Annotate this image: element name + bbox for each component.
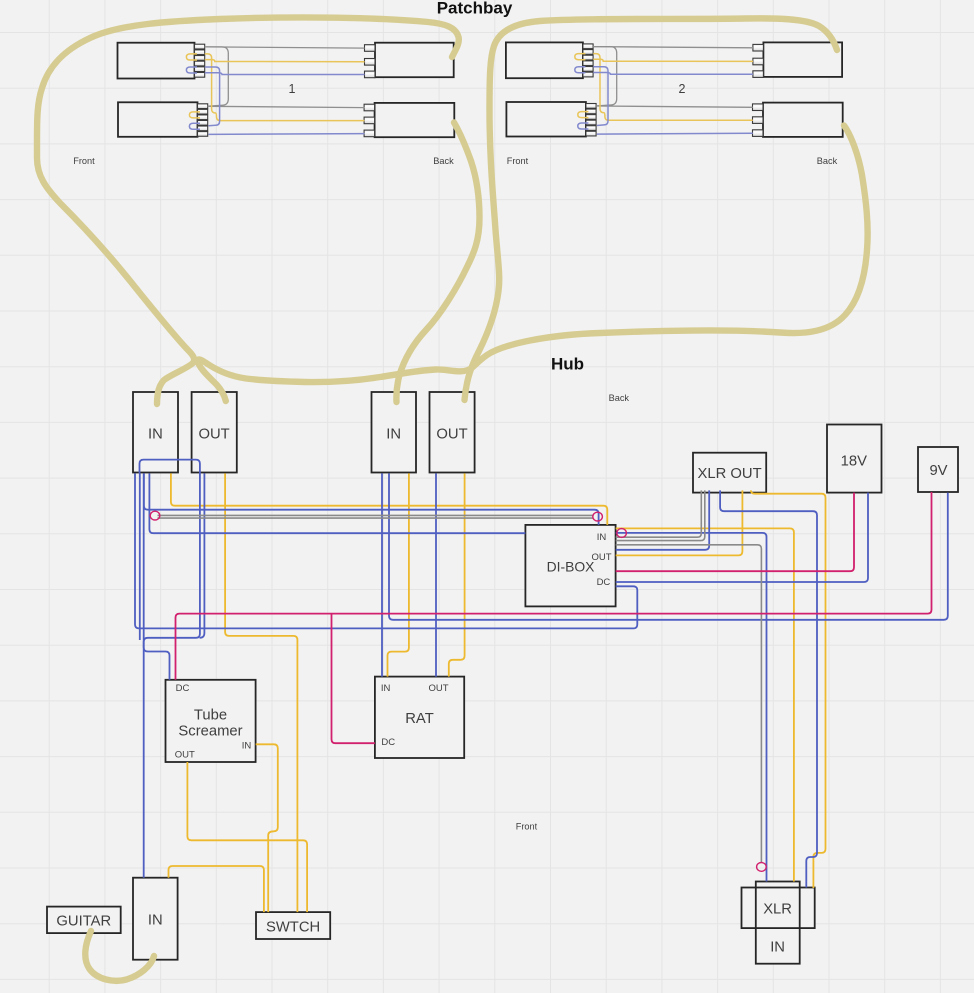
svg-text:DC: DC xyxy=(597,577,611,588)
DI-BOX xyxy=(525,525,615,607)
svg-text:OUT: OUT xyxy=(428,683,448,694)
wire yellow Tube Screamer OUT to SWTCH xyxy=(187,762,307,912)
wire blue hub IN middle to 9V xyxy=(389,473,948,619)
wire yellow hub OUT to SWTCH xyxy=(225,473,297,912)
wire gray XLR OUT jack to DI-BOX IN a xyxy=(616,490,702,537)
wire blue 2 front-bottom to back-bottom xyxy=(597,132,753,135)
svg-text:Tube: Tube xyxy=(194,708,227,724)
patchbay 1 front-top jack strip xyxy=(118,43,195,79)
svg-text:IN: IN xyxy=(148,913,163,929)
svg-text:OUT: OUT xyxy=(198,427,229,443)
svg-text:Back: Back xyxy=(817,156,838,166)
wire gray twisted pair lower xyxy=(158,517,594,519)
patch cable 2 back-bottom to hub OUT xyxy=(198,126,868,402)
wire yellow 2 loop at front-top xyxy=(575,54,586,60)
patchbay 2 front-bottom pins xyxy=(586,104,596,109)
patchbay group 1 xyxy=(118,43,455,138)
wire blue hub IN to DI-BOX left xyxy=(149,473,525,533)
patchbay 2 back-top pins xyxy=(753,44,764,51)
wire yellow Tube Screamer IN to SWTCH xyxy=(256,744,278,912)
wire gray DI-BOX to XLR junction xyxy=(616,545,762,862)
svg-text:Hub: Hub xyxy=(551,355,584,374)
patchbay 1 back-top pins xyxy=(365,45,376,52)
wire gray 2 front-top to back-top xyxy=(593,47,753,48)
wire blue 1 front-top to back-top xyxy=(205,73,365,75)
svg-text:OUT: OUT xyxy=(591,552,611,563)
svg-text:IN: IN xyxy=(597,532,607,543)
svg-text:Screamer: Screamer xyxy=(178,723,242,739)
hub XLR OUT jack xyxy=(693,453,766,493)
wire yellow 1 front-top to back-top xyxy=(205,60,365,62)
wire blue 1 front-bottom to back-bottom xyxy=(209,133,365,136)
patch cable 2 back-top to hub OUT middle xyxy=(465,18,838,400)
wire blue 2 loop at front-bottom xyxy=(578,123,589,129)
junction circle DI-BOX IN xyxy=(617,529,627,538)
svg-text:DC: DC xyxy=(176,683,190,694)
svg-text:DI-BOX: DI-BOX xyxy=(547,559,595,575)
wire yellow hub OUT middle to RAT OUT xyxy=(449,473,465,676)
svg-text:Back: Back xyxy=(609,393,630,403)
patchbay 1 front-bottom pins xyxy=(198,104,208,109)
wire yellow hub IN middle to RAT IN xyxy=(388,473,409,676)
wire gray 1 front-bottom to back-bottom xyxy=(208,106,365,107)
hub jack IN (back row left) xyxy=(133,392,178,473)
wire blue arch hub IN to hub OUT down to Tube Screamer xyxy=(140,460,200,680)
wire yellow hub IN to DI-BOX top xyxy=(171,473,607,525)
wire blue hub OUT middle to RAT OUT xyxy=(435,473,437,676)
patch cable 1 back-top to hub IN xyxy=(37,17,459,404)
svg-text:GUITAR: GUITAR xyxy=(56,914,111,930)
wire gray 1 loop front-top to front-bottom xyxy=(205,47,229,106)
wire gray 1 front-top to back-top xyxy=(205,47,365,48)
svg-text:Front: Front xyxy=(507,156,529,166)
wire blue hub IN middle to RAT IN xyxy=(381,473,383,676)
svg-text:2: 2 xyxy=(679,82,686,96)
wire blue hub IN to DI-BOX DC xyxy=(135,473,637,628)
wire gray 2 loop front-top to front-bottom xyxy=(593,47,617,106)
hub jack OUT (back row middle) xyxy=(430,392,475,473)
svg-text:XLR: XLR xyxy=(763,902,792,918)
svg-text:IN: IN xyxy=(770,940,785,956)
wire yellow 2 front-top to back-top xyxy=(593,59,753,61)
wire gray twisted pair upper xyxy=(158,514,594,516)
junction circle XLR xyxy=(757,863,767,872)
SWTCH footswitch xyxy=(256,912,330,939)
wire blue 2 loop at front-top xyxy=(575,67,586,73)
patchbay 1 back-bottom pins xyxy=(364,104,375,111)
patchbay 2 front-top jack strip xyxy=(506,42,583,78)
wire blue 1 loop at front-top xyxy=(186,67,197,73)
RAT pedal xyxy=(375,677,464,758)
svg-text:1: 1 xyxy=(289,82,296,96)
wire yellow 2 front-top down to back-bottom xyxy=(593,54,753,121)
patchbay 1 back-bottom jack xyxy=(375,103,455,137)
wire blue 2 front-top to back-top xyxy=(593,73,753,75)
svg-text:DC: DC xyxy=(381,737,395,748)
wire blue 18V to DI-BOX DC xyxy=(616,493,868,582)
wire blue 1 loop at front-bottom xyxy=(189,123,200,129)
wire blue hub OUT drop xyxy=(200,473,205,637)
patchbay 1 front-bottom jack strip xyxy=(118,102,198,137)
patchbay 1 front-top pins xyxy=(195,44,205,49)
wire crimson 9V to Tube Screamer DC xyxy=(176,492,932,680)
svg-text:OUT: OUT xyxy=(175,750,195,761)
wire yellow DI-BOX IN to XLR xyxy=(616,528,794,881)
svg-text:IN: IN xyxy=(386,427,401,443)
wire blue XLR OUT jack to DI-BOX OUT xyxy=(616,490,710,549)
wire blue hub IN to DI-BOX top xyxy=(144,473,599,525)
XLR jack assembly xyxy=(742,888,815,929)
wire yellow DI-BOX OUT to XLR OUT jack xyxy=(616,490,743,555)
svg-text:XLR OUT: XLR OUT xyxy=(698,466,762,482)
wire blue DI-BOX IN to XLR xyxy=(616,533,767,882)
patchbay 2 back-top jack xyxy=(763,42,842,76)
hub jack OUT (back row left) xyxy=(192,392,237,473)
wire yellow 1 loop at front-top xyxy=(186,54,197,60)
svg-text:Front: Front xyxy=(73,156,95,166)
hub 9V supply xyxy=(918,447,958,492)
wire yellow XLR OUT jack to XLR xyxy=(751,490,826,888)
svg-text:Front: Front xyxy=(516,822,538,832)
wire gray 2 front-bottom to back-bottom xyxy=(596,106,753,107)
patchbay 1 back-top jack xyxy=(375,43,454,77)
wire yellow front IN jack to SWTCH xyxy=(169,866,264,912)
patchbay group 2 xyxy=(506,42,843,136)
svg-text:OUT: OUT xyxy=(436,427,467,443)
svg-text:IN: IN xyxy=(381,683,391,694)
wire blue 2 front-top down to front-bottom xyxy=(593,67,608,126)
GUITAR xyxy=(47,907,121,934)
patchbay 2 back-bottom pins xyxy=(753,104,764,111)
svg-text:9V: 9V xyxy=(929,463,947,479)
svg-text:IN: IN xyxy=(148,427,163,443)
hub jack IN (back row middle) xyxy=(372,392,417,473)
wire yellow 1 front-top down to back-bottom xyxy=(205,54,365,121)
wire crimson branch to RAT DC xyxy=(332,614,375,744)
wire blue XLR OUT jack to XLR xyxy=(720,490,817,887)
patchbay 2 back-bottom jack xyxy=(763,103,843,137)
svg-text:Patchbay: Patchbay xyxy=(437,0,513,18)
wire yellow 1 loop at front-bottom xyxy=(189,112,200,118)
patch cable 1 back-bottom to hub IN middle xyxy=(396,123,479,403)
patchbay 2 front-bottom jack strip xyxy=(506,102,586,137)
junction circle DI-BOX top xyxy=(593,512,603,521)
wire yellow 2 loop at front-bottom xyxy=(578,112,589,118)
wire blue 1 front-top down to front-bottom xyxy=(205,67,220,126)
wire crimson 18V to DI-BOX xyxy=(616,493,854,572)
svg-text:IN: IN xyxy=(242,740,252,751)
patch cable GUITAR to front IN jack xyxy=(85,931,154,981)
wire blue hub IN leg xyxy=(139,473,141,640)
wire blue hub IN to front IN jack xyxy=(143,473,145,877)
hub 18V supply xyxy=(827,425,882,493)
svg-text:SWTCH: SWTCH xyxy=(266,920,320,936)
svg-text:RAT: RAT xyxy=(405,711,434,727)
Tube Screamer pedal xyxy=(166,680,256,762)
svg-text:Back: Back xyxy=(433,156,454,166)
patchbay 2 front-top pins xyxy=(583,44,593,49)
hub jack IN (front row) xyxy=(133,878,178,960)
wire gray XLR OUT jack to DI-BOX IN b xyxy=(616,490,705,540)
junction circle left xyxy=(150,511,160,520)
svg-text:18V: 18V xyxy=(841,454,867,470)
